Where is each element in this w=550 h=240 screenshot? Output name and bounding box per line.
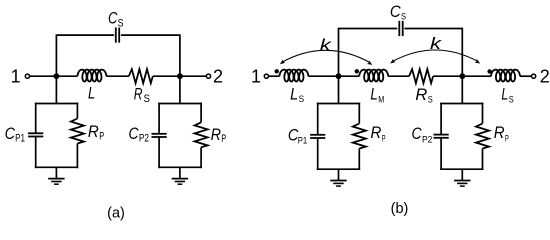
capacitor CS (a): [116, 27, 119, 42]
terminal 2 (b): [532, 74, 536, 78]
svg-text:1: 1: [11, 66, 21, 86]
wire terminal1-to-LS1 (b): [269, 75, 280, 77]
wire LM-to-RS (b): [388, 75, 409, 77]
capacitor CP1: [28, 133, 43, 136]
svg-text:P: P: [99, 130, 104, 142]
svg-text:L: L: [370, 85, 377, 103]
wire res branch upper right (a): [200, 103, 202, 123]
wire cap branch lower left (b): [317, 138, 319, 170]
resistor RS (b): [409, 69, 433, 83]
wire shunt top right (a): [158, 103, 202, 105]
svg-text:R: R: [134, 86, 143, 104]
svg-text:M: M: [378, 94, 384, 104]
svg-text:P: P: [221, 133, 226, 145]
svg-text:P2: P2: [422, 134, 432, 144]
ground right (a): [172, 167, 188, 184]
svg-text:S: S: [401, 12, 406, 22]
capacitor CS (b): [399, 21, 402, 36]
wire res branch upper (a): [76, 103, 78, 119]
wire resistor-to-terminal2 (a): [153, 75, 207, 77]
svg-text:C: C: [412, 125, 422, 143]
svg-text:P1: P1: [15, 133, 25, 145]
resistor RP left (b): [353, 124, 366, 149]
svg-text:C: C: [5, 125, 15, 143]
junction A (a): [54, 73, 60, 79]
junction C (b): [336, 73, 342, 79]
svg-text:L: L: [290, 85, 298, 103]
svg-text:2: 2: [213, 66, 223, 86]
resistor RS (a): [129, 69, 153, 83]
svg-text:1: 1: [251, 66, 261, 86]
polarity dot LM: [355, 69, 359, 73]
svg-text:k: k: [430, 35, 442, 53]
svg-text:R: R: [371, 124, 382, 142]
resistor RP right (a): [195, 122, 208, 147]
svg-text:S: S: [144, 93, 150, 105]
wire shunt bottom left (a): [35, 166, 78, 168]
wire RS-to-LS2 (b): [433, 75, 491, 77]
wire shunt stub right (a): [179, 76, 181, 103]
wire cap branch upper left (b): [317, 103, 319, 135]
wire top branch right riser (b): [404, 29, 462, 77]
wire top branch left riser (a): [56, 35, 114, 76]
polarity dot LS1: [275, 69, 279, 73]
wire shunt bottom right (a): [158, 166, 202, 168]
wire res branch lower right (b): [482, 149, 484, 171]
svg-text:L: L: [501, 86, 508, 104]
capacitor CP2: [152, 134, 167, 137]
svg-text:C: C: [108, 9, 117, 27]
inductor LS1: [279, 70, 308, 82]
svg-text:P: P: [505, 133, 509, 143]
wire terminal1-to-inductor (a): [30, 75, 78, 77]
wire shunt top right (b): [440, 103, 483, 105]
wire top branch left riser (b): [339, 29, 398, 77]
wire cap branch upper right (b): [440, 103, 442, 135]
wire shunt bottom left (b): [317, 168, 360, 170]
wire shunt stub right (b): [461, 76, 463, 103]
wire shunt bottom right (b): [440, 168, 483, 170]
ground left (b): [330, 169, 346, 186]
wire cap branch upper (a): [35, 103, 37, 134]
polarity dot LS2: [487, 69, 491, 73]
svg-text:S: S: [509, 94, 514, 104]
ground left (a): [48, 167, 64, 184]
inductor L (a): [77, 70, 106, 82]
wire shunt stub left (a): [55, 76, 57, 103]
svg-text:(a): (a): [107, 205, 125, 221]
wire cap branch lower (a): [35, 137, 37, 169]
inductor LM: [359, 70, 388, 82]
terminal 2 (a): [206, 74, 210, 78]
svg-text:C: C: [129, 125, 139, 143]
wire cap branch lower right (a): [158, 137, 160, 168]
svg-text:P: P: [382, 133, 386, 143]
wire inductor-to-resistor (a): [106, 75, 128, 77]
wire top branch right riser (a): [121, 35, 180, 76]
svg-text:S: S: [428, 95, 433, 105]
svg-text:(b): (b): [391, 201, 409, 217]
junction D (b): [459, 73, 465, 79]
wire res branch lower left (b): [358, 149, 360, 171]
wire LS1-to-LM (b): [308, 75, 359, 77]
coupling arrow k right (b): [389, 50, 481, 65]
wire cap branch upper right (a): [158, 103, 160, 134]
svg-text:L: L: [88, 85, 95, 103]
wire shunt stub left (b): [338, 76, 340, 103]
svg-text:S: S: [299, 94, 305, 105]
junction B (a): [177, 73, 183, 79]
capacitor CP1 (b): [310, 135, 325, 138]
svg-text:R: R: [494, 124, 505, 142]
wire res branch upper left (b): [358, 103, 360, 124]
svg-text:R: R: [211, 126, 221, 144]
svg-text:S: S: [118, 17, 124, 29]
svg-text:C: C: [390, 3, 401, 21]
resistor RP right (b): [476, 124, 489, 149]
svg-text:R: R: [415, 86, 427, 104]
resistor RP left (a): [71, 119, 84, 144]
svg-text:R: R: [88, 123, 99, 141]
wire shunt top left (b): [317, 103, 360, 105]
wire res branch lower (a): [76, 144, 78, 169]
svg-text:2: 2: [540, 67, 550, 87]
wire res branch upper right (b): [482, 103, 484, 124]
svg-text:k: k: [320, 37, 332, 55]
wire shunt top left (a): [35, 103, 78, 105]
svg-text:P2: P2: [139, 133, 149, 145]
inductor LS2: [491, 70, 520, 82]
ground right (b): [454, 169, 470, 186]
wire cap branch lower right (b): [440, 138, 442, 170]
wire LS2-to-terminal2 (b): [520, 75, 532, 77]
capacitor CP2 (b): [434, 135, 449, 138]
coupling arrow k left (b): [279, 50, 374, 67]
terminal 1 (b): [264, 74, 268, 78]
wire res branch lower right (a): [200, 147, 202, 168]
terminal 1 (a): [25, 74, 29, 78]
svg-text:P1: P1: [298, 135, 307, 145]
